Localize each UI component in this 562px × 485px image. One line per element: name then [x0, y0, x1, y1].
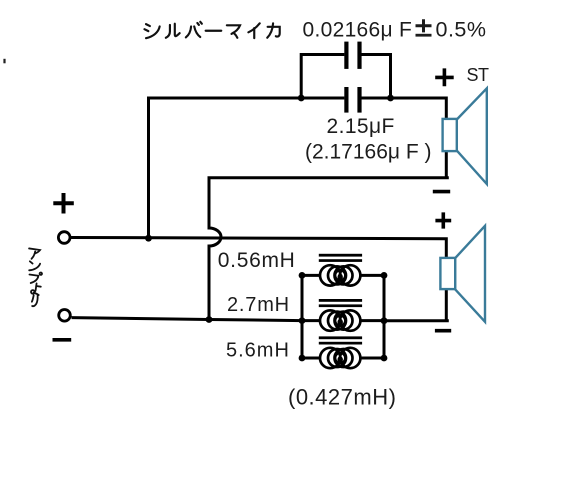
svg-text:0.56mH: 0.56mH — [218, 249, 296, 272]
svg-text:2.7mH: 2.7mH — [227, 294, 290, 316]
svg-text:(2.17166μ F ): (2.17166μ F ) — [305, 141, 432, 164]
svg-text:2.15μF: 2.15μF — [327, 115, 395, 138]
svg-text:5.6mH: 5.6mH — [226, 340, 290, 362]
svg-text:(0.427mH): (0.427mH) — [288, 385, 396, 410]
svg-text:0.5%: 0.5% — [436, 17, 487, 41]
svg-text:ST: ST — [467, 65, 490, 85]
svg-text:0.02166μ F: 0.02166μ F — [303, 18, 413, 41]
